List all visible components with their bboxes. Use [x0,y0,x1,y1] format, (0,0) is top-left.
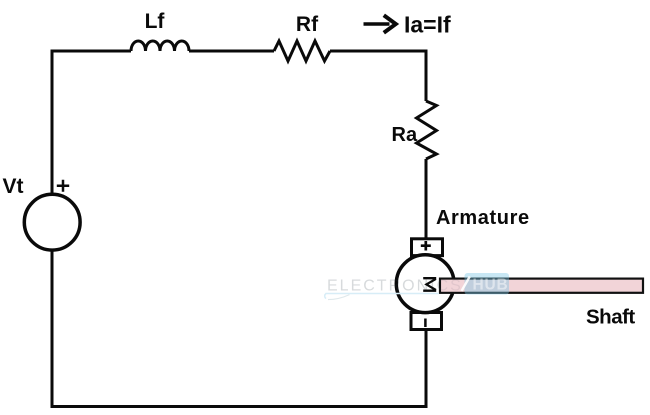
svg-text:Armature: Armature [436,207,530,229]
svg-text:Ra: Ra [392,124,418,146]
wire: Ra to armature top brush [425,159,428,239]
watermark slash [462,277,470,292]
wire: left + top to inductor [52,51,131,195]
wire: resistor to top-right corner, down to Ra [330,51,426,101]
current arrow [364,22,390,26]
svg-text:Vt: Vt [3,175,24,198]
shaft (pink bar) [440,279,643,293]
rotated M motor mark [423,278,436,291]
svg-text:Shaft: Shaft [586,306,635,329]
wire: inductor to resistor [189,50,274,53]
plus sign in top brush [421,241,431,251]
watermark swoosh [328,295,350,300]
minus sign (rotated) in bottom brush [424,319,427,328]
svg-text:Lf: Lf [145,10,166,33]
plus sign near Vt [57,180,69,192]
watermark fade patch over shaft [441,280,464,292]
voltage source Vt circle [24,194,80,250]
svg-text:HUB: HUB [473,276,509,293]
wire: bottom brush down, bottom rail, left rail up to Vt [52,250,426,407]
armature top brush terminal [412,239,443,256]
svg-text:Rf: Rf [296,13,319,36]
resistor Ra [417,101,437,159]
resistor Rf [274,41,330,61]
watermark HUB box [465,273,510,295]
armature bottom brush terminal [411,313,442,330]
watermark underline [325,294,439,299]
motor armature circle U1 [396,255,454,313]
inductor Lf [131,41,189,51]
svg-text:Ia=If: Ia=If [404,12,451,38]
